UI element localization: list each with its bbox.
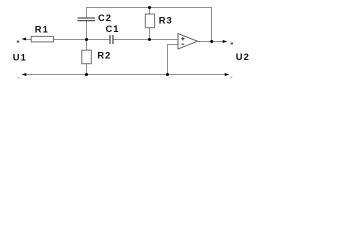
svg-text:U2: U2: [236, 51, 250, 62]
svg-text:R3: R3: [159, 14, 173, 25]
svg-text:R1: R1: [35, 23, 49, 34]
svg-text:R2: R2: [97, 49, 111, 60]
svg-text:C1: C1: [106, 23, 120, 34]
svg-text:C2: C2: [98, 12, 112, 23]
svg-text:U1: U1: [13, 52, 27, 63]
